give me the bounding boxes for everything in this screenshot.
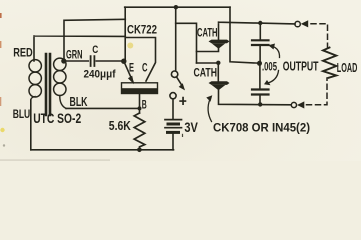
arrowhead CK708 leader bbox=[206, 95, 212, 101]
wire emitter vertical bbox=[124, 7, 126, 61]
node diode2 top junction bbox=[216, 61, 220, 65]
node GRN junction bbox=[61, 58, 66, 63]
arrowhead output top jack bbox=[301, 20, 308, 27]
gray dot bbox=[3, 144, 5, 146]
resistor LOAD zigzag bbox=[323, 48, 336, 78]
svg-text:GRN: GRN bbox=[66, 48, 83, 62]
battery plus sign bbox=[179, 97, 186, 105]
stray mark bbox=[182, 134, 184, 137]
svg-text:C: C bbox=[92, 44, 98, 56]
arrowhead emitter whisker bbox=[128, 76, 134, 85]
transformer T1 core bbox=[46, 54, 50, 115]
wire lower cap top lead bbox=[259, 63, 261, 89]
wire top rail right drop bbox=[230, 7, 260, 63]
wire secondary to capacitor C bbox=[65, 60, 88, 62]
svg-text:.005: .005 bbox=[262, 60, 277, 74]
wire RED to collector net bbox=[34, 36, 125, 61]
node mid junction bbox=[257, 61, 262, 66]
svg-text:CATH: CATH bbox=[194, 65, 218, 79]
wire emitter whisker bbox=[124, 61, 133, 82]
wire top rail bbox=[125, 6, 230, 8]
svg-text:240μμf: 240μμf bbox=[84, 69, 116, 81]
key switch K1 blade bbox=[177, 77, 183, 86]
arrowhead lower .005 pointer bbox=[264, 80, 271, 85]
arrow lower .005 pointer bbox=[267, 71, 279, 84]
node lower cap bottom junction bbox=[258, 102, 262, 106]
dashed link top to load bbox=[311, 24, 328, 48]
capacitor C plates bbox=[91, 56, 95, 66]
arrowhead upper .005 pointer bbox=[268, 44, 275, 50]
svg-text:B: B bbox=[142, 99, 147, 111]
wire upper cap bottom lead bbox=[259, 46, 261, 63]
wire output top bbox=[219, 22, 296, 39]
capacitor .005 lower plates bbox=[252, 90, 269, 95]
node .005 upper cap top junction bbox=[258, 21, 262, 25]
arrowhead key blade bbox=[179, 83, 185, 90]
battery B1 plate short bbox=[168, 123, 179, 126]
wire diode2 top lead bbox=[217, 63, 219, 81]
transistor Q1 CK722 body outline bbox=[122, 83, 158, 94]
wire lower cap bottom lead bbox=[259, 96, 261, 105]
transistor Q1 body lower black half bbox=[122, 88, 157, 93]
wire BLU lead bbox=[30, 100, 32, 150]
node top rail key junction bbox=[174, 5, 178, 9]
wire GRN to emitter vertical bbox=[64, 19, 125, 61]
wire capacitor C to emitter junction bbox=[96, 60, 122, 62]
svg-text:CK708 OR IN45(2): CK708 OR IN45(2) bbox=[213, 120, 310, 134]
paper yellow spot corner bbox=[0, 128, 4, 132]
key switch K1 upper contact bbox=[171, 71, 177, 77]
svg-text:UTC SO-2: UTC SO-2 bbox=[33, 110, 81, 126]
wire key riser bbox=[175, 7, 177, 71]
paper background bbox=[0, 0, 361, 161]
svg-text:E: E bbox=[129, 62, 134, 74]
wire diode2 bottom to output jack bbox=[219, 90, 292, 105]
svg-text:CK722: CK722 bbox=[127, 22, 157, 36]
resistor R1 5.6K zigzag bbox=[134, 113, 145, 150]
wire BLK exit curl bbox=[60, 96, 66, 109]
svg-text:3V: 3V bbox=[184, 120, 198, 135]
wire diode1 bottom link bbox=[197, 49, 219, 52]
node resistor bottom junction bbox=[137, 148, 142, 153]
node base junction bbox=[138, 106, 142, 110]
arrow CK708 leader bbox=[208, 99, 211, 122]
battery B1 plate long bbox=[165, 127, 182, 129]
svg-text:5.6K: 5.6K bbox=[109, 119, 131, 133]
output jack J1 top circle bbox=[295, 21, 300, 26]
wire BLU exit curl bbox=[31, 97, 35, 101]
battery B1 plate short bbox=[168, 131, 179, 134]
wire collector riser bbox=[125, 38, 155, 82]
wire bottom rail bbox=[31, 149, 174, 151]
diode D1 triangle bbox=[212, 43, 226, 49]
svg-text:RED: RED bbox=[13, 46, 33, 60]
capacitor .005 upper plates bbox=[252, 40, 269, 45]
svg-text:CATH: CATH bbox=[197, 26, 218, 40]
node emitter junction bbox=[121, 59, 126, 64]
arrow upper .005 pointer bbox=[272, 46, 280, 58]
transformer T1 primary winding bbox=[29, 60, 41, 72]
wire BLK to base bbox=[66, 107, 140, 109]
svg-text:OUTPUT: OUTPUT bbox=[283, 59, 319, 74]
wire to diode2 top bbox=[197, 62, 218, 64]
wire key to diode junction bbox=[176, 23, 197, 63]
transformer T1 secondary winding bbox=[54, 58, 66, 70]
diode D2 triangle bbox=[212, 85, 226, 90]
wire upper cap top lead bbox=[259, 23, 261, 40]
scan edge artifacts bbox=[0, 13, 2, 18]
wire battery top lead bbox=[172, 99, 174, 119]
paper yellow spot bbox=[127, 43, 133, 49]
svg-text:BLU: BLU bbox=[13, 107, 31, 121]
svg-text:BLK: BLK bbox=[70, 95, 88, 109]
battery B1 plate long bbox=[165, 119, 182, 121]
arrowhead output bottom jack bbox=[297, 101, 304, 108]
diode D2 cathode bar bbox=[209, 81, 230, 85]
wire base lead bbox=[139, 94, 141, 114]
dashed link bottom to load bbox=[307, 78, 328, 105]
svg-text:C: C bbox=[142, 62, 148, 74]
wire battery bottom lead bbox=[172, 134, 174, 150]
output jack J2 bottom circle bbox=[291, 102, 296, 107]
diode D1 cathode bar bbox=[209, 40, 230, 44]
svg-text:LOAD: LOAD bbox=[337, 61, 358, 75]
key switch K1 lower contact bbox=[170, 93, 176, 99]
